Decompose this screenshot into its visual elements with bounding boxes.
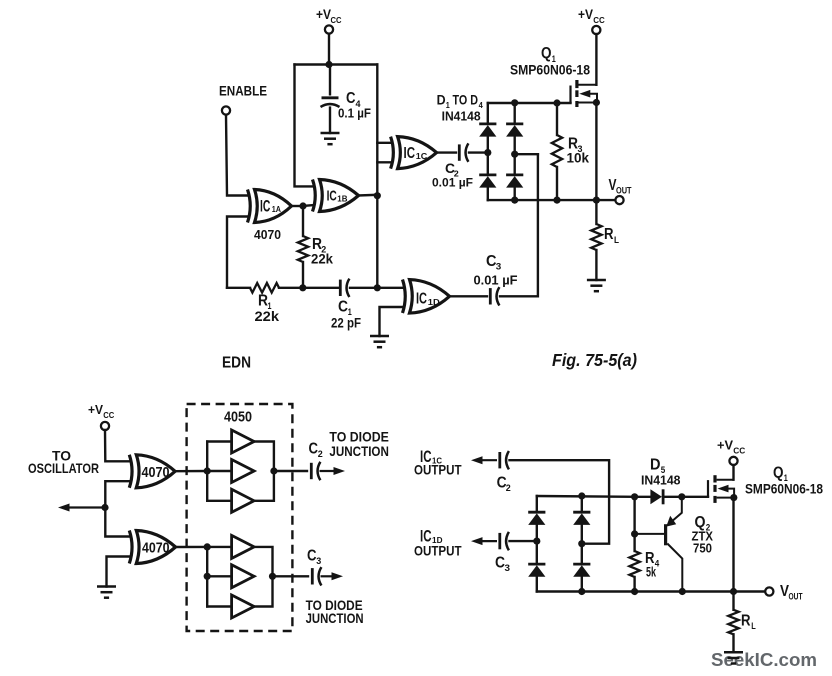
svg-text:EDN: EDN (222, 355, 251, 372)
wire RLb bottom lead (732, 634, 734, 652)
op-amp: XOR gate 4070 lower (129, 531, 175, 564)
terminal +Vcc bottom-right (729, 457, 737, 465)
wire RL bottom lead (595, 250, 597, 280)
svg-text:0.01 µF: 0.01 µF (474, 274, 518, 288)
svg-text:IC: IC (416, 291, 427, 308)
svg-text:4070: 4070 (142, 465, 170, 481)
wire buffer6 input (207, 605, 231, 607)
wire IC1D input B to ground (380, 307, 405, 336)
op-amp: XOR gate IC1B (313, 180, 359, 212)
wire R4 bottom lead (633, 577, 635, 592)
svg-text:Q: Q (773, 465, 784, 482)
svg-text:CC: CC (331, 16, 342, 25)
svg-text:22k: 22k (311, 251, 333, 267)
capacitor C4 (321, 98, 340, 107)
svg-text:10k: 10k (567, 150, 590, 166)
diode D9 (573, 564, 590, 577)
svg-text:+V: +V (316, 7, 331, 22)
label IC1D (416, 291, 440, 308)
junction upper bus (204, 467, 211, 474)
terminal ENABLE (222, 106, 230, 114)
wire IC1B output (359, 194, 378, 197)
wire IC1C input B tap (377, 161, 392, 163)
capacitor C2 (drive) (500, 451, 509, 469)
buffer U2f (232, 595, 255, 618)
wire C1 left lead (303, 287, 340, 289)
wire lower buffer input bus (206, 547, 208, 607)
terminal +Vcc top-right (592, 26, 600, 34)
svg-text:+V: +V (578, 7, 593, 22)
junction C1 / IC1B-out / IC1D-in node (374, 284, 381, 291)
wire br-col2 bottom lead (581, 577, 583, 592)
junction C2-drive node (578, 540, 585, 547)
svg-text:TO DIODE: TO DIODE (329, 429, 389, 444)
wire C4 bottom lead (329, 108, 331, 133)
svg-text:+V: +V (88, 402, 103, 417)
capacitor C3 (490, 287, 499, 305)
label D1 TO D4 (437, 92, 483, 111)
svg-text:D: D (437, 92, 446, 108)
svg-text:IC: IC (327, 188, 337, 205)
svg-text:22 pF: 22 pF (331, 315, 361, 331)
wire buffer5 input (207, 575, 231, 577)
svg-text:IN4148: IN4148 (641, 473, 681, 487)
wire C2 drive to diode junction (510, 460, 610, 544)
svg-text:IN4148: IN4148 (442, 109, 481, 123)
buffer U2c (232, 489, 255, 512)
svg-text:1C: 1C (416, 151, 428, 161)
wire C2 to diode column 1 (469, 151, 488, 153)
junction lower bus input (204, 543, 211, 550)
svg-text:C: C (346, 90, 356, 107)
svg-text:OUTPUT: OUTPUT (414, 463, 462, 478)
wire Q1 source to output rail (595, 103, 597, 201)
svg-text:IC: IC (260, 196, 270, 215)
svg-text:L: L (614, 235, 619, 245)
label C3 (buffer) (307, 548, 321, 567)
junction Q1 source node (593, 99, 600, 106)
junction RL / Vout node (730, 588, 737, 595)
wire D5 anode lead (635, 496, 651, 498)
junction C3 / D3-D4 node (511, 151, 518, 158)
wire R2 bottom lead (302, 262, 304, 288)
diode D1 (479, 124, 496, 137)
junction col2 bottom node (511, 197, 518, 204)
junction oscillator tap (101, 504, 108, 511)
wire IC1C output to C2 (437, 151, 456, 153)
junction lower bus middle (204, 573, 211, 580)
resistor R3 (552, 135, 562, 167)
svg-text:JUNCTION: JUNCTION (329, 444, 389, 459)
wire lower buffer output bus (254, 547, 272, 607)
resistor RL (bottom) (728, 610, 738, 635)
label C1 (338, 299, 352, 318)
label R1 (258, 293, 272, 312)
wire br-col1 top lead (536, 496, 538, 512)
resistor R1 (250, 283, 279, 293)
wire to C2 coupling (274, 470, 307, 472)
wire R3 top lead (556, 103, 558, 135)
label IC1D OUTPUT (420, 528, 443, 546)
junction Vcc / C4 node (325, 61, 332, 68)
junction R1/R2/C1 node (299, 284, 306, 291)
wire C3 drive to diode junction (510, 540, 537, 542)
wire R3 bottom lead (556, 167, 558, 200)
svg-text:R: R (741, 613, 751, 630)
wire br-col1 middle (536, 525, 538, 564)
label R4 (645, 550, 659, 569)
svg-text:R: R (604, 226, 614, 243)
buffer U2b (232, 460, 255, 483)
svg-text:0.1 µF: 0.1 µF (338, 106, 371, 121)
wire IC1A input B to feedback node (227, 217, 249, 288)
wire RLb top lead (732, 592, 734, 610)
svg-text:JUNCTION: JUNCTION (306, 611, 364, 626)
wire gate F output to buffer bus (176, 546, 208, 548)
wire col2 top lead (514, 103, 516, 124)
wire R1 right lead (279, 287, 303, 289)
resistor R2 (298, 236, 308, 262)
junction Q1 source / RL / Vout (593, 197, 600, 204)
box 4050 IC (dashed) (187, 404, 293, 631)
svg-text:1D: 1D (428, 297, 440, 307)
label Q1 (541, 45, 556, 64)
label R2 (312, 236, 326, 255)
op-amp: XOR gate IC1A (4070) (248, 190, 292, 223)
label C2 (drive) (497, 475, 511, 493)
wire R1 left lead (227, 287, 250, 289)
label RL (604, 226, 619, 245)
svg-text:L: L (751, 621, 756, 631)
wire col1 middle (487, 137, 489, 175)
svg-text:SMP60N06-18: SMP60N06-18 (745, 481, 823, 497)
wire gate E input B down to gate F input A (105, 481, 130, 536)
label C2 (buffer) (309, 441, 323, 460)
wire C4 top lead (329, 65, 331, 95)
svg-text:1B: 1B (337, 194, 347, 204)
junction D5 anode / R4 top (631, 493, 638, 500)
ground RL (587, 280, 606, 291)
op-amp: XOR gate 4070 upper (129, 455, 175, 488)
arrow to diode junction lower (321, 572, 344, 580)
diode D8 (573, 512, 590, 525)
transistor Q2 (PNP ZTX750) (635, 497, 683, 592)
wire upper buffer input bus (206, 442, 208, 501)
svg-text:CC: CC (103, 411, 114, 420)
wire to IC1B input B (303, 205, 314, 206)
svg-text:TO D: TO D (453, 92, 479, 108)
label +Vcc (top left) (316, 7, 342, 25)
wire br output rail (537, 590, 769, 592)
wire br-col2 middle (581, 525, 583, 564)
label IC1C (404, 145, 428, 162)
svg-text:5k: 5k (646, 565, 656, 580)
wire Vcc down to rail (328, 34, 330, 65)
svg-text:D: D (650, 457, 661, 474)
svg-text:Q: Q (541, 45, 552, 62)
capacitor C3 (drive) (500, 532, 509, 550)
label +Vcc (bottom right) (717, 438, 746, 456)
svg-text:3: 3 (496, 262, 502, 272)
wire upper buffer output bus (254, 442, 274, 501)
arrow to oscillator (58, 504, 105, 512)
wire right leg down (IC1C inputs / IC1B out node) (376, 65, 378, 288)
wire D5 cathode to Q1 gate (663, 496, 708, 498)
svg-text:4070: 4070 (254, 227, 281, 242)
label C3 (drive) (495, 555, 510, 574)
svg-text:3: 3 (505, 563, 511, 573)
ground RL bottom (724, 652, 743, 663)
label +Vcc (top right) (578, 7, 605, 25)
transistor Q1b (MOSFET SMP60N06-18) (708, 475, 734, 503)
capacitor C2 (459, 143, 468, 161)
label Vout (top) (609, 177, 632, 196)
svg-text:IC: IC (404, 145, 416, 162)
ground gate F (97, 587, 116, 598)
label C3 (486, 253, 501, 272)
label +Vcc (bottom left) (88, 402, 115, 420)
terminal Vout bottom (765, 587, 773, 595)
resistor R4 (629, 551, 639, 577)
capacitor C2 (buffer) (311, 462, 320, 480)
terminal Vout top (615, 196, 623, 204)
svg-text:CC: CC (733, 447, 745, 456)
op-amp: XOR gate IC1D (403, 280, 450, 314)
junction br-col2 bottom (578, 588, 585, 595)
wire R2 top lead (302, 206, 304, 236)
svg-text:C: C (307, 548, 317, 565)
label C4 (346, 90, 361, 109)
wire output rail to Vout (488, 199, 619, 201)
svg-text:4050: 4050 (224, 409, 252, 426)
svg-text:OUT: OUT (616, 186, 632, 196)
wire br top rail to D5 (537, 495, 635, 498)
terminal +Vcc top-left (325, 25, 333, 33)
wire Vcc to Q1b drain (732, 465, 734, 480)
wire ENABLE to IC1A input A (226, 115, 249, 196)
wire C3 up to diode junction (500, 154, 538, 296)
wire Vcc to gate E input A (105, 430, 131, 461)
wire gate rail (488, 102, 571, 104)
label IC1C OUTPUT (420, 448, 442, 466)
wire to IC1D input A (377, 287, 404, 289)
label IC1B (327, 188, 348, 205)
wire br-col2 top lead (581, 496, 583, 512)
wire gate F input B to ground (107, 557, 131, 587)
junction R3 bottom (553, 197, 560, 204)
wire D3-D4 node to C3 riser (515, 153, 538, 155)
svg-text:750: 750 (693, 542, 712, 556)
wire R4 top lead (633, 497, 635, 551)
wire Vcc to Q1 drain (595, 34, 597, 85)
wire br-col1 bottom lead (536, 577, 538, 592)
transistor Q1 (MOSFET SMP60N06-18) (571, 80, 598, 107)
diode D3 (506, 124, 523, 137)
junction IC1B output / IC1C inputs node (374, 192, 381, 199)
wire RL top lead (595, 200, 597, 224)
svg-text:2: 2 (318, 449, 323, 459)
diode D7 (528, 564, 545, 577)
buffer U2e (232, 565, 255, 588)
wire IC1C input A tap (377, 142, 392, 144)
junction Q2 emitter node (678, 493, 685, 500)
wire buffer3 input (207, 500, 231, 502)
label D5 (650, 457, 665, 476)
label RL (bottom) (741, 613, 756, 632)
wire col2 bottom lead (514, 188, 516, 201)
capacitor C1 (340, 279, 349, 297)
svg-text:1A: 1A (272, 204, 281, 214)
label Q1 (bottom) (773, 465, 788, 484)
label Q2 (695, 514, 711, 533)
svg-text:CC: CC (593, 16, 605, 25)
wire col2 middle (514, 137, 516, 175)
junction R4 bottom (631, 588, 638, 595)
label R3 (568, 136, 583, 155)
svg-text:OSCILLATOR: OSCILLATOR (28, 460, 99, 476)
svg-text:SMP60N06-18: SMP60N06-18 (510, 62, 590, 78)
junction Q2 base node (631, 530, 638, 537)
resistor RL (591, 224, 601, 250)
diode D6 (528, 512, 545, 525)
diode D4 (506, 175, 523, 188)
ground IC1D input (370, 336, 389, 347)
wire col1 bottom lead (487, 188, 489, 201)
junction Q1b source node (730, 494, 737, 501)
junction col2 top node (511, 99, 518, 106)
diode D2 (479, 175, 496, 188)
wire top rail of supply loop (295, 63, 378, 65)
svg-text:C: C (338, 299, 348, 316)
wire left leg down to IC1B input A (295, 65, 314, 187)
svg-text:4070: 4070 (142, 541, 170, 557)
wire buffer2 input (207, 470, 231, 472)
label IC1A (260, 196, 281, 215)
ground C4 (321, 133, 340, 144)
svg-text:OUTPUT: OUTPUT (414, 543, 462, 558)
svg-text:Fig. 75-5(a): Fig. 75-5(a) (552, 350, 637, 370)
svg-text:OUT: OUT (789, 592, 803, 602)
junction br-col2 top (578, 492, 585, 499)
svg-text:2: 2 (506, 483, 511, 493)
capacitor C3 (buffer) (312, 567, 321, 585)
label C2 (445, 160, 459, 179)
wire to C3 coupling (273, 575, 309, 577)
svg-text:+V: +V (717, 438, 733, 453)
arrow IC1D output (471, 537, 497, 545)
svg-text:ENABLE: ENABLE (219, 83, 267, 99)
svg-text:22k: 22k (255, 308, 280, 324)
svg-text:C: C (309, 441, 319, 458)
buffer U2d (232, 535, 255, 558)
label Vout (bottom) (780, 583, 803, 602)
junction IC1A output node (299, 202, 306, 209)
wire buffer1 input (207, 440, 231, 442)
junction upper output bus (270, 467, 277, 474)
op-amp: XOR gate IC1C (391, 137, 437, 169)
junction lower output bus (269, 573, 276, 580)
svg-text:3: 3 (316, 556, 321, 566)
wire C1 right lead (350, 287, 377, 289)
svg-text:0.01 µF: 0.01 µF (432, 176, 473, 190)
junction Q2 collector / rail (679, 588, 686, 595)
junction C3-drive node (533, 538, 540, 545)
junction R3 top (553, 99, 560, 106)
wire Q1b source to output rail (732, 498, 734, 592)
diode D5 (650, 489, 663, 504)
buffer U2a (232, 430, 255, 453)
wire gate E output to buffer bus (175, 470, 207, 473)
wire IC1D output to C3 (450, 295, 488, 297)
junction C2 / D1-D2 node (484, 149, 491, 156)
wire col1 top lead (487, 103, 489, 124)
arrow to diode junction upper (320, 467, 346, 475)
wire IC1A output (292, 205, 304, 207)
wire buffer4 input (207, 546, 231, 548)
terminal +Vcc bottom-left (101, 422, 109, 430)
arrow IC1C output (471, 456, 497, 464)
svg-text:Q: Q (695, 514, 706, 531)
svg-text:R: R (258, 293, 268, 310)
